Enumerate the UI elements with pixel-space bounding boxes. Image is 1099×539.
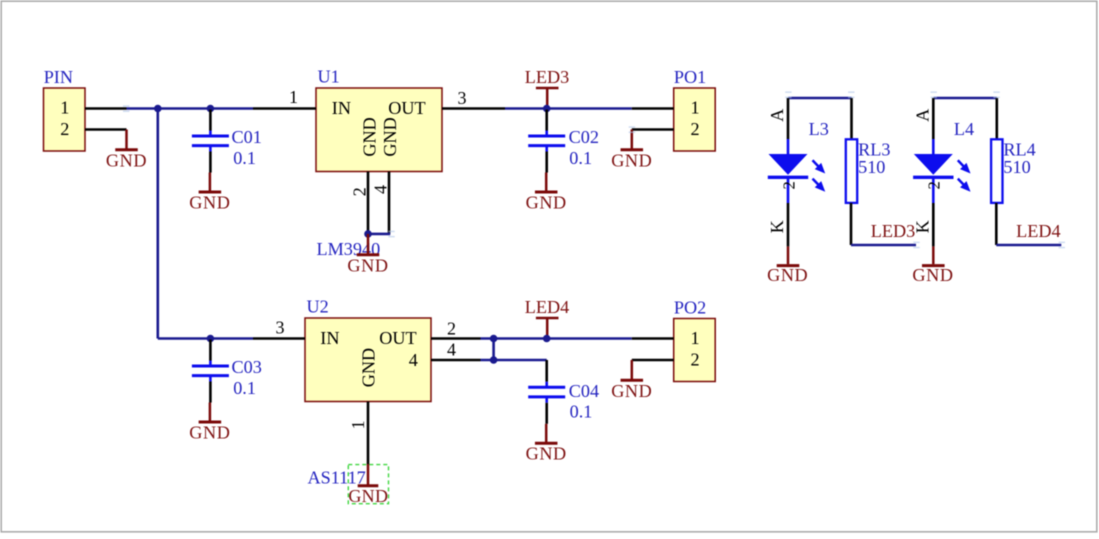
svg-text:GND: GND [380,117,400,156]
svg-text:LED4: LED4 [1016,221,1060,241]
svg-text:C04: C04 [569,381,599,401]
svg-text:U2: U2 [307,296,329,316]
svg-text:GND: GND [611,150,652,170]
svg-text:AS1117: AS1117 [308,468,366,488]
svg-text:K: K [767,220,787,233]
svg-text:GND: GND [358,348,378,387]
svg-text:PO1: PO1 [674,67,706,87]
svg-text:1: 1 [348,420,368,429]
svg-text:GND: GND [767,265,808,285]
svg-text:K: K [912,220,932,233]
svg-text:2: 2 [925,181,944,189]
svg-text:0.1: 0.1 [569,148,592,168]
svg-text:C03: C03 [232,357,262,377]
svg-text:A: A [912,109,932,122]
svg-text:IN: IN [320,328,339,348]
svg-text:2: 2 [779,181,798,189]
svg-text:GND: GND [106,150,147,170]
svg-text:IN: IN [332,98,351,118]
svg-text:2: 2 [690,350,699,370]
svg-text:PIN: PIN [44,67,73,87]
svg-text:510: 510 [858,157,885,177]
svg-text:C02: C02 [569,127,599,147]
svg-text:1: 1 [690,328,699,348]
svg-text:1: 1 [289,87,298,107]
svg-text:LED4: LED4 [525,297,569,317]
svg-text:LED3: LED3 [525,67,569,87]
svg-text:GND: GND [348,486,388,506]
svg-text:GND: GND [189,193,230,213]
svg-text:3: 3 [458,88,467,108]
svg-text:1: 1 [690,98,699,118]
svg-text:2: 2 [447,318,456,338]
svg-text:3: 3 [276,317,285,337]
svg-text:GND: GND [526,444,567,464]
svg-text:GND: GND [611,381,652,401]
svg-text:4: 4 [409,350,418,370]
svg-text:GND: GND [189,423,230,443]
svg-text:2: 2 [60,119,69,139]
svg-text:GND: GND [347,255,388,275]
svg-text:GND: GND [359,117,379,156]
svg-text:L4: L4 [954,119,974,139]
svg-text:L3: L3 [809,119,829,139]
svg-text:C01: C01 [232,127,262,147]
svg-text:2: 2 [690,119,699,139]
svg-text:OUT: OUT [388,98,425,118]
svg-text:2: 2 [349,187,369,196]
svg-text:A: A [767,109,787,122]
svg-text:4: 4 [370,185,390,194]
svg-text:GND: GND [912,265,953,285]
svg-text:OUT: OUT [379,328,416,348]
svg-text:510: 510 [1003,157,1030,177]
svg-text:GND: GND [526,193,567,213]
svg-text:0.1: 0.1 [570,402,593,422]
svg-text:LED3: LED3 [871,221,915,241]
svg-text:4: 4 [447,340,456,360]
svg-text:0.1: 0.1 [233,378,256,398]
svg-text:0.1: 0.1 [233,148,256,168]
svg-text:1: 1 [60,98,69,118]
svg-text:PO2: PO2 [674,297,706,317]
svg-text:U1: U1 [318,67,340,87]
